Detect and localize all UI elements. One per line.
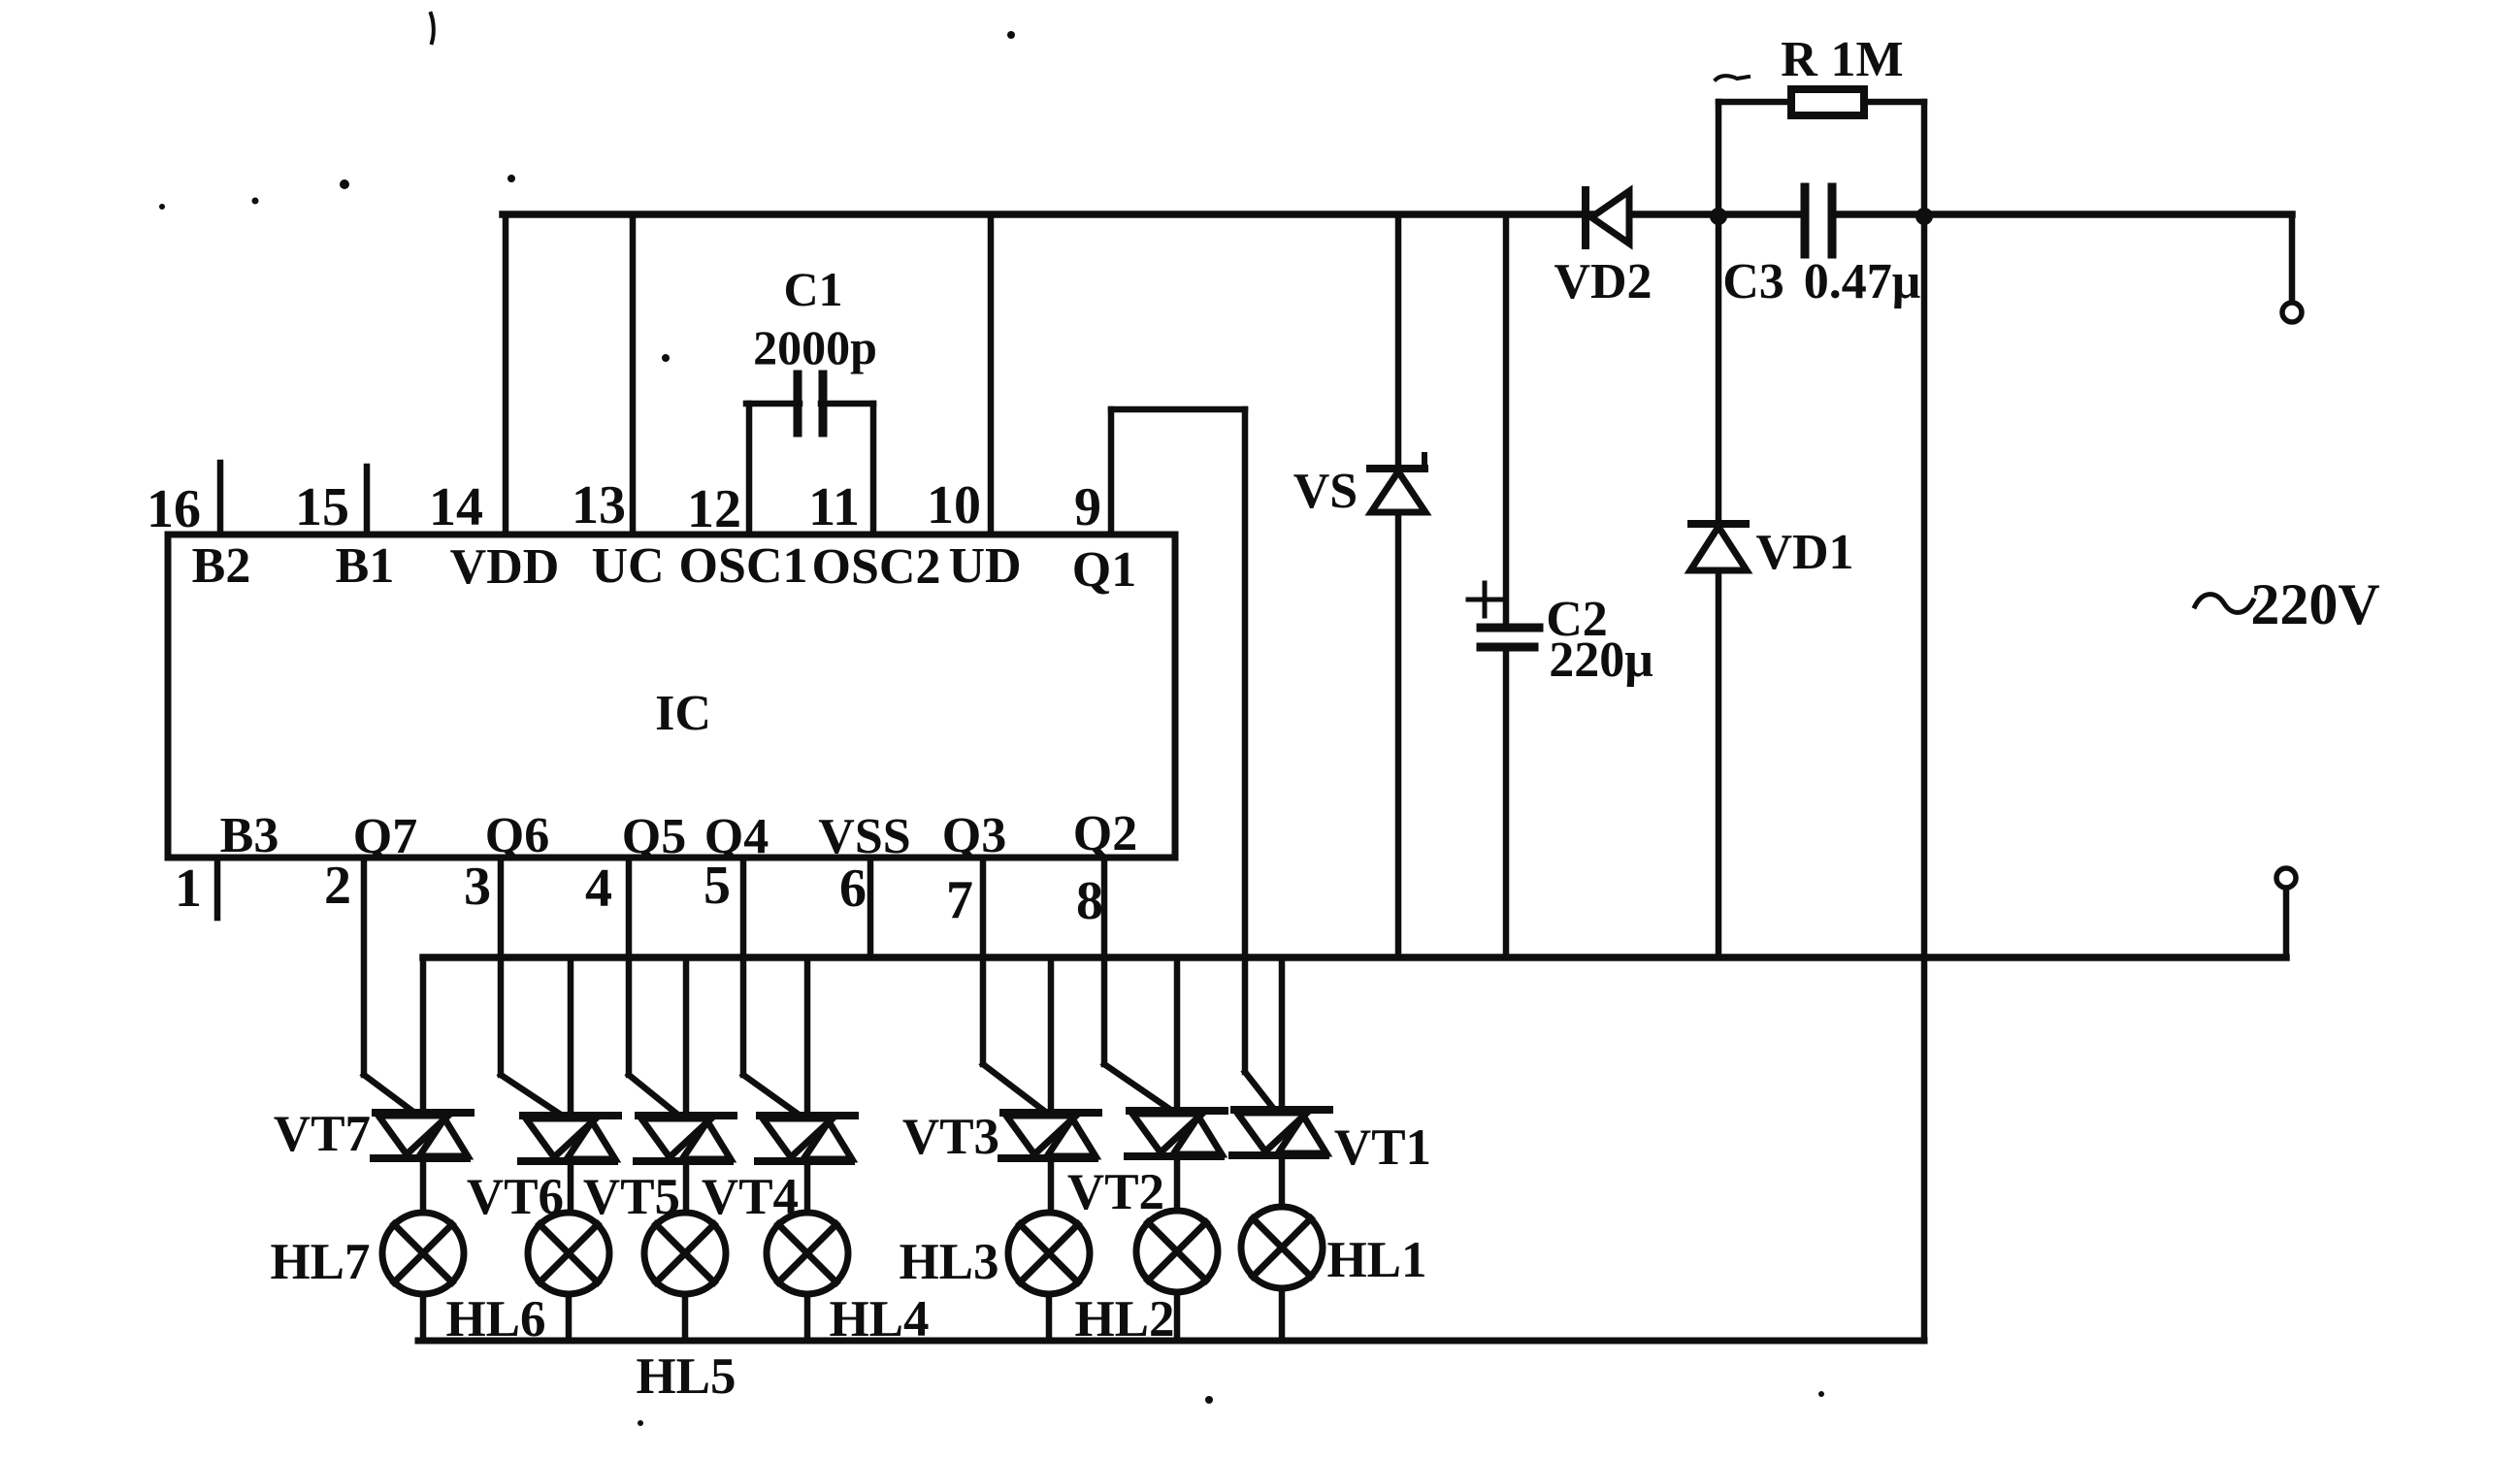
svg-text:VT1: VT1 [1334,1119,1431,1176]
svg-text:OSC2: OSC2 [812,539,941,595]
node AC terminal top [2282,303,2302,322]
diode VD1 [1691,520,1746,528]
wire HL7 to lamp bus [420,1294,427,1341]
svg-text:8: 8 [1076,871,1103,931]
lamp HL3 [1008,1213,1090,1294]
svg-text:1M: 1M [1830,32,1903,87]
wire pin3 Q6 down [498,858,505,1075]
svg-text:2000p: 2000p [753,320,877,374]
svg-text:VD2: VD2 [1554,254,1652,309]
wire VT4 to HL4 [804,1161,811,1214]
capacitor C2 branch wire upper [1503,214,1510,628]
svg-text:VT7: VT7 [274,1106,371,1162]
resistor R bracket right [1865,99,1924,106]
wire pin11 OSC2 up to C1 [870,404,877,535]
svg-text:4: 4 [585,859,612,919]
node top bus (VDD rail) [503,211,1801,218]
wire HL3 to lamp bus [1046,1294,1053,1341]
zener diode VS [1370,465,1424,472]
svg-text:Q2: Q2 [1073,806,1137,861]
wire VT1 to HL1 [1279,1155,1286,1209]
svg-text:OSC1: OSC1 [679,538,808,594]
wire T2 drop to VT2 [1174,957,1181,1111]
triac VT4 [758,1116,855,1161]
wire pin7 Q3 down [980,858,987,1064]
svg-text:2: 2 [324,856,351,916]
wire pin10 UD to top bus [988,214,995,535]
triac VT6 [521,1116,618,1161]
resistor R 1M [1791,89,1864,115]
svg-text:5: 5 [704,856,731,916]
wire VT7 to HL7 [420,1158,427,1214]
scan speck [1205,1396,1213,1404]
svg-text:VSS: VSS [818,809,910,864]
svg-text:VS: VS [1293,464,1358,519]
svg-text:VT3: VT3 [902,1109,999,1165]
zener VS branch wire [1395,214,1402,957]
svg-text:Q7: Q7 [353,809,417,864]
svg-text:VD1: VD1 [1755,525,1853,580]
svg-text:HL5: HL5 [636,1348,736,1405]
scan speck [507,175,515,182]
wire pin2 Q7 down [361,858,368,1075]
capacitor C1 [794,374,802,433]
wire C1 right lead [821,401,873,407]
scan speck [340,179,349,189]
svg-text:12: 12 [687,479,741,539]
wire top AC terminal stub [2289,214,2296,303]
node lamp bus [418,1338,1924,1345]
svg-text:0.47μ: 0.47μ [1804,254,1920,309]
wire HL6 to lamp bus [566,1294,573,1341]
wire Q5 gate diagonal [629,1075,680,1117]
svg-text:HL7: HL7 [270,1234,370,1290]
svg-text:HL1: HL1 [1326,1232,1426,1288]
artifact squiggle near R [1716,76,1749,80]
triac VT3 [1001,1113,1098,1158]
wire VT6 to HL6 [568,1161,574,1214]
scan speck [1007,31,1015,39]
pin 16 stub [217,463,224,535]
wire pin9 Q1 jog horizontal [1111,406,1245,413]
svg-text:3: 3 [464,857,491,917]
wire bottom AC terminal stub [2283,888,2290,957]
wire Q1 gate diagonal to VT1 [1245,1072,1276,1112]
wire T2 drop to VT1 [1279,957,1286,1110]
svg-text:HL3: HL3 [899,1234,998,1290]
wire T2 drop to VT4 [804,957,811,1116]
diode VD1 branch wire [1716,216,1722,957]
wire Q4 gate diagonal [743,1075,802,1117]
svg-text:VT2: VT2 [1067,1164,1164,1220]
svg-text:B3: B3 [220,808,279,863]
lamp HL2 [1136,1211,1218,1292]
lamp HL4 [767,1213,848,1294]
wire T2 drop to VT6 [568,957,574,1116]
triac VT5 [637,1116,734,1161]
wire long vertical C3-right down to lamp bus [1921,216,1928,1341]
wire HL4 to lamp bus [804,1294,811,1341]
wire Q1 vertical down to VT1 gate [1242,409,1249,1072]
svg-text:Q5: Q5 [622,809,686,864]
node junction A (VD2 cathode / R / VD1) [1710,208,1727,225]
svg-text:VT5: VT5 [583,1169,680,1225]
wire T2 drop to VT7 [420,957,427,1113]
svg-text:11: 11 [808,477,860,537]
wire Q3 gate diagonal [983,1064,1044,1111]
wire HL1 to lamp bus [1279,1288,1286,1341]
svg-text:IC: IC [655,686,711,741]
lamp HL7 [382,1213,464,1294]
resistor R bracket left [1716,102,1722,216]
wire Q7 gate diagonal [364,1075,417,1115]
wire pin8 Q2 down [1101,858,1108,1064]
wire T2 drop to VT3 [1048,957,1055,1113]
svg-text:B2: B2 [192,538,251,594]
wire T2 drop to VT5 [683,957,690,1116]
triac VT2 [1128,1111,1225,1156]
svg-text:13: 13 [572,475,626,535]
lamp HL6 [528,1213,609,1294]
svg-text:C1: C1 [783,262,842,316]
wire C1 left lead [746,401,800,407]
node T2 bus (VSS rail) [423,954,2286,961]
capacitor C2 [1481,624,1539,632]
svg-text:1: 1 [175,859,202,919]
svg-text:7: 7 [946,870,973,930]
wire pin6 VSS down to T2 bus [867,858,874,957]
capacitor C3 [1801,187,1810,254]
svg-text:VT4: VT4 [702,1169,799,1225]
pin 15 stub [364,467,371,535]
svg-text:B1: B1 [336,538,395,594]
triac VT1 [1232,1110,1329,1155]
svg-text:6: 6 [839,859,867,919]
scan speck [159,204,165,210]
wire pin13 UC to top bus [630,214,637,535]
svg-text:Q6: Q6 [485,808,549,863]
scan speck [431,14,434,43]
svg-text:15: 15 [295,477,349,537]
node AC terminal bottom [2276,868,2296,888]
svg-text:HL6: HL6 [445,1291,545,1347]
svg-text:9: 9 [1074,477,1101,537]
wire Q6 gate diagonal [501,1075,564,1117]
scan speck [252,198,259,205]
wire pin14 VDD to top bus [503,214,509,535]
svg-text:Q1: Q1 [1072,542,1136,598]
wire pin12 OSC1 up to C1 [746,404,753,535]
node junction B (C3 right / R right / long vertical) [1915,208,1933,225]
svg-text:10: 10 [927,475,981,535]
wire HL5 to lamp bus [682,1294,689,1341]
svg-text:16: 16 [147,479,201,539]
IC U1 body [168,535,1175,858]
label tilde of ~220V [2195,595,2253,613]
svg-text:Q3: Q3 [942,808,1006,863]
svg-text:R: R [1781,32,1818,87]
capacitor C2 branch wire lower [1503,647,1510,957]
diode VD2 [1582,190,1589,245]
wire VT5 to HL5 [683,1161,690,1214]
triac VT7 [374,1113,471,1158]
wire pin4 Q5 down [626,858,633,1075]
svg-text:VDD: VDD [450,539,560,595]
pin 1 stub [214,858,221,918]
wire Q2 gate diagonal [1104,1064,1172,1111]
svg-text:C3: C3 [1722,254,1784,309]
svg-text:VT6: VT6 [467,1169,564,1225]
svg-text:UC: UC [591,538,664,594]
wire VT3 to HL3 [1048,1158,1055,1214]
svg-text:220μ: 220μ [1549,632,1653,688]
svg-text:14: 14 [429,477,483,537]
svg-text:HL4: HL4 [829,1291,929,1347]
lamp HL1 [1241,1207,1323,1288]
svg-text:220V: 220V [2250,572,2379,636]
scan speck [638,1420,643,1426]
scan speck [1818,1391,1824,1397]
lamp HL5 [644,1213,726,1294]
label C2 plus sign [1468,598,1501,602]
wire VT2 to HL2 [1174,1156,1181,1214]
svg-text:UD: UD [948,538,1021,594]
svg-text:HL2: HL2 [1074,1291,1174,1347]
wire HL2 to lamp bus [1174,1292,1181,1341]
scan speck [662,354,670,362]
wire pin9 Q1 jog up [1108,409,1115,535]
wire pin5 Q4 down [740,858,747,1075]
